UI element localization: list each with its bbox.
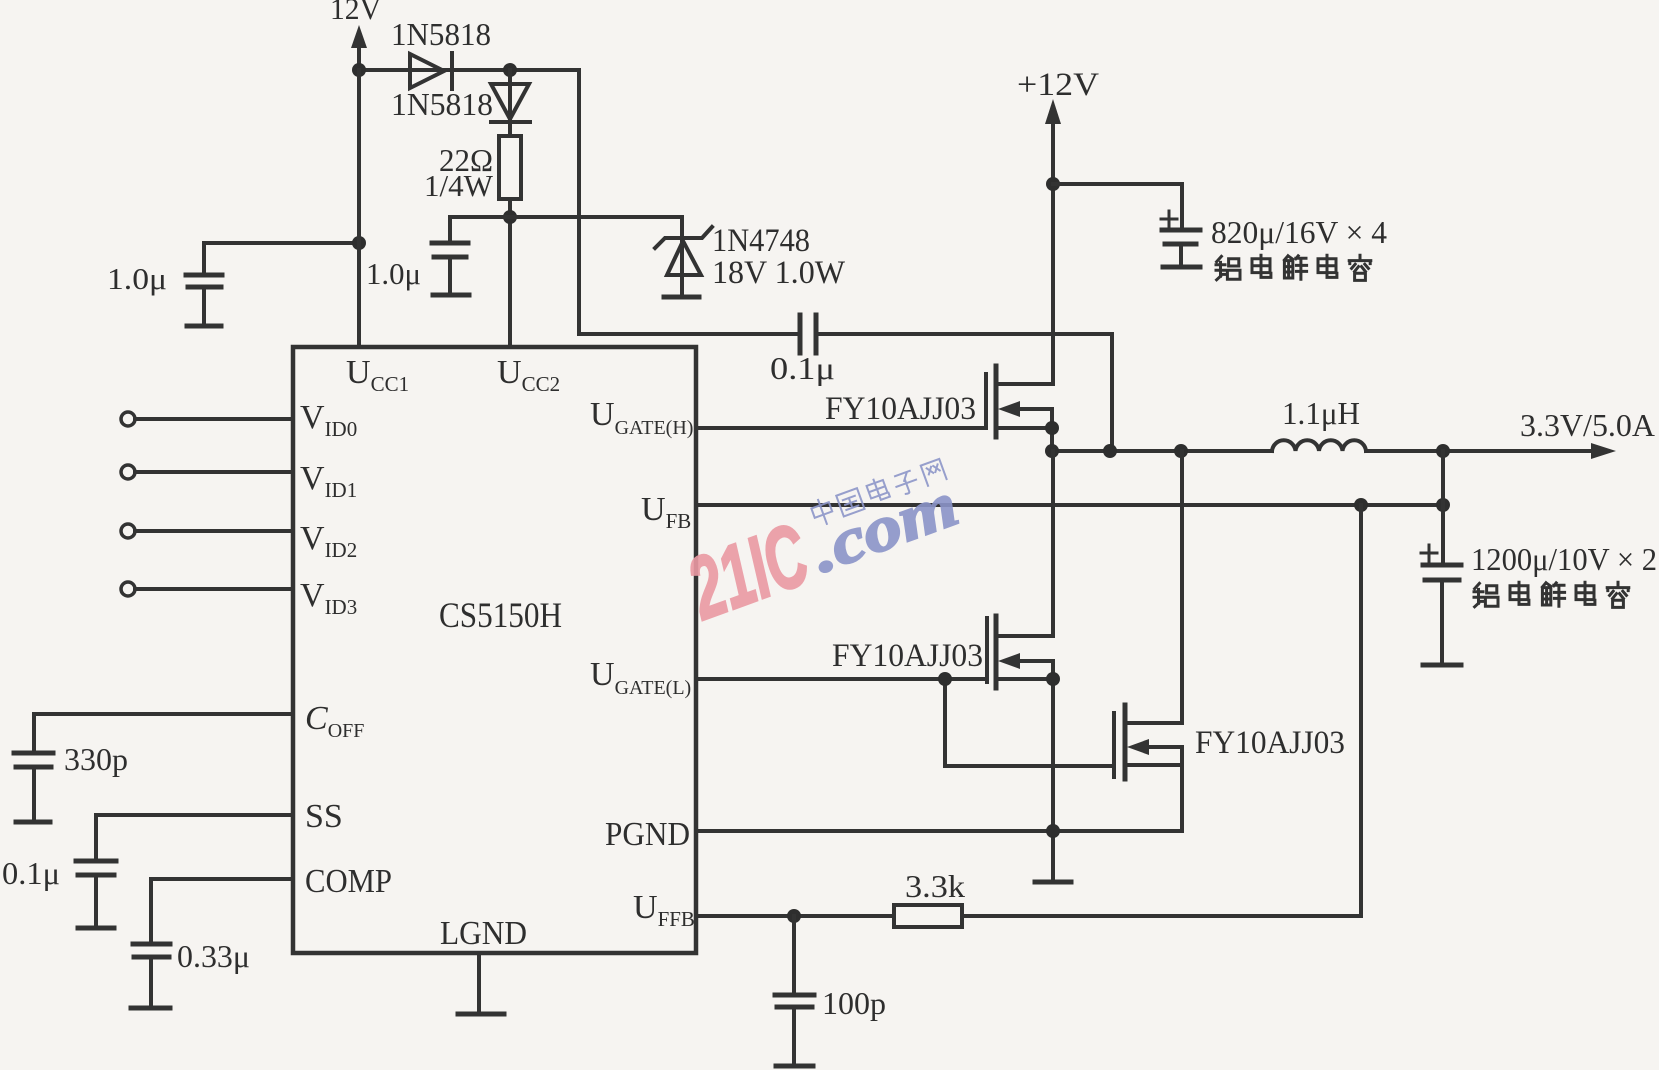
- svg-text:SS: SS: [305, 798, 343, 835]
- capacitor 0.1u (bootstrap): [770, 315, 835, 386]
- IC CS5150H box: [293, 347, 696, 953]
- label aluminium electrolytic cap (bottom): [1474, 582, 1629, 607]
- capacitor 0.1u (soft start): [2, 855, 116, 926]
- svg-text:18V 1.0W: 18V 1.0W: [712, 255, 846, 291]
- wire 12V node to diode: [359, 68, 579, 72]
- wire junction to zener: [450, 215, 682, 219]
- svg-text:1200μ/10V × 2: 1200μ/10V × 2: [1471, 541, 1657, 577]
- wire FET2 source to ground: [1051, 661, 1055, 882]
- svg-text:0.1μ: 0.1μ: [770, 350, 835, 386]
- ground below zener: [664, 295, 699, 300]
- label aluminium electrolytic cap (top): [1216, 255, 1371, 280]
- svg-text:PGND: PGND: [605, 816, 690, 853]
- svg-text:330p: 330p: [64, 741, 128, 777]
- diode 1N5818 (horizontal): [391, 16, 491, 89]
- terminal VID0: [121, 412, 293, 426]
- svg-text:1.0μ: 1.0μ: [107, 261, 167, 296]
- node junction FET1 source: [1045, 421, 1059, 435]
- capacitor 1200u/10V x2 electrolytic: [1421, 541, 1657, 664]
- svg-text:CS5150H: CS5150H: [439, 595, 562, 635]
- wire output node down to 1200u: [1441, 451, 1445, 565]
- ground below 820u: [1163, 265, 1200, 270]
- node junction PGND ground: [1046, 824, 1060, 838]
- wire +12V to 820u cap: [1053, 184, 1182, 230]
- ground below FET2 source: [1035, 880, 1071, 885]
- svg-text:1.0μ: 1.0μ: [366, 256, 421, 291]
- node junction below resistor: [503, 210, 517, 224]
- svg-text:FY10AJJ03: FY10AJJ03: [1195, 725, 1345, 761]
- svg-text:1N5818: 1N5818: [391, 86, 493, 122]
- inductor 1.1uH: [1272, 395, 1366, 451]
- transistor FY10AJJ03 (high side): [825, 366, 1053, 451]
- wire to bootstrap branch: [577, 70, 581, 334]
- capacitor 330p: [14, 741, 128, 820]
- ground below 1200u: [1423, 663, 1461, 668]
- terminal VID2: [121, 524, 293, 538]
- node junction output cap: [1436, 444, 1450, 458]
- gate wire UGATE(H): [696, 426, 986, 430]
- svg-text:1.1μH: 1.1μH: [1282, 395, 1360, 431]
- transistor FY10AJJ03 (low side A): [832, 616, 1053, 688]
- ground below LGND: [458, 1012, 504, 1017]
- node junction diode output: [503, 63, 517, 77]
- node junction switch node at FET1: [1045, 444, 1059, 458]
- svg-text:100p: 100p: [822, 985, 886, 1021]
- feedback wire UFB: [696, 503, 1443, 507]
- ground below SS cap: [78, 926, 114, 931]
- capacitor 1.0u (UCC1 bypass): [107, 243, 359, 324]
- node junction FET2 source: [1046, 672, 1060, 686]
- wire SS pin: [96, 815, 293, 861]
- LGND pin wire: [477, 953, 481, 1014]
- svg-text:1N4748: 1N4748: [712, 223, 810, 259]
- transistor FY10AJJ03 (low side B): [1114, 705, 1345, 779]
- wire resistor to UCC2 pin: [508, 199, 512, 347]
- ground below COMP cap: [131, 1006, 170, 1011]
- watermark 21IC.com: [674, 456, 966, 638]
- node junction +12V to 820u: [1046, 177, 1060, 191]
- node junction UCC1 wire: [352, 236, 366, 250]
- capacitor 820u/16V x4 electrolytic: [1161, 211, 1387, 266]
- PGND wire: [696, 829, 1182, 833]
- wire 3.3k to feedback: [962, 505, 1361, 916]
- resistor 3.3k: [894, 868, 965, 927]
- capacitor 1.0u (UCC2 bypass): [366, 217, 468, 294]
- node junction UFB at output cap: [1436, 498, 1450, 512]
- node junction UFFB at 100p: [787, 909, 801, 923]
- resistor 22 ohm 1/4W: [424, 136, 521, 203]
- wire 12V down to UCC1: [357, 70, 361, 347]
- gate wire UGATE(L): [696, 679, 1114, 766]
- power rail +12V: [1017, 67, 1099, 384]
- svg-text:820μ/16V × 4: 820μ/16V × 4: [1211, 214, 1387, 250]
- svg-text:+12V: +12V: [1017, 67, 1099, 103]
- svg-text:0.33μ: 0.33μ: [177, 938, 250, 974]
- svg-text:LGND: LGND: [440, 915, 527, 952]
- svg-text:1/4W: 1/4W: [424, 168, 494, 203]
- svg-text:12V: 12V: [330, 0, 382, 26]
- UFFB wire: [696, 914, 894, 918]
- terminal VID3: [121, 582, 293, 596]
- wire FET2 drain to switch node: [1051, 451, 1055, 636]
- terminal VID1: [121, 465, 293, 479]
- node junction bootstrap at switch node: [1103, 444, 1117, 458]
- svg-text:FY10AJJ03: FY10AJJ03: [832, 638, 983, 674]
- svg-text:3.3k: 3.3k: [905, 868, 965, 904]
- bootstrap wire with 0.1u capacitor: [579, 334, 1112, 451]
- capacitor 100p: [775, 916, 886, 1065]
- wire FET3 source to PGND: [1180, 747, 1184, 831]
- node junction UGATE(L) branch: [938, 672, 952, 686]
- ground below 1.0u (UCC1 bypass): [187, 324, 221, 329]
- svg-text:FY10AJJ03: FY10AJJ03: [825, 391, 976, 427]
- node junction UFB to UFFB branch: [1354, 498, 1368, 512]
- power rail 12V: [330, 0, 382, 70]
- svg-text:1N5818: 1N5818: [391, 16, 491, 52]
- capacitor 0.33u (COMP): [133, 938, 250, 1006]
- svg-text:0.1μ: 0.1μ: [2, 855, 60, 891]
- ground below 1.0u (UCC2 bypass): [433, 293, 469, 298]
- wire FET3 drain to switch node: [1180, 451, 1184, 723]
- ground below 100p: [776, 1064, 813, 1069]
- wire COMP pin: [151, 879, 293, 944]
- ground below 330p: [16, 820, 50, 825]
- zener diode 1N4748 18V 1.0W: [655, 217, 846, 297]
- diode 1N5818 (vertical): [391, 70, 530, 136]
- node junction FET3 drain at switch node: [1174, 444, 1188, 458]
- node junction at 12V rail: [352, 63, 366, 77]
- svg-text:COMP: COMP: [305, 863, 392, 900]
- svg-text:3.3V/5.0A: 3.3V/5.0A: [1520, 407, 1655, 443]
- switch node wire to output: [1052, 449, 1608, 453]
- wire COFF pin: [34, 714, 293, 753]
